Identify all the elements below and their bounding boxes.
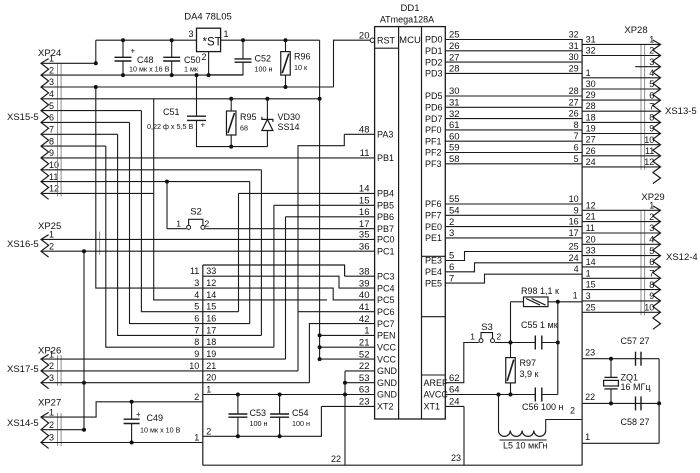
- svg-text:AREF: AREF: [424, 378, 449, 388]
- svg-text:5: 5: [649, 79, 654, 89]
- MCU PA3 wire jog: [344, 133, 374, 135]
- connector XP24/XS15-5 pins 1-12: [41, 59, 49, 200]
- svg-text:PD7: PD7: [425, 114, 443, 124]
- svg-text:10 мк x 16 В: 10 мк x 16 В: [129, 65, 170, 74]
- svg-text:12: 12: [206, 278, 216, 288]
- XP25 pin wires to PC0 PC1: [41, 238, 375, 240]
- svg-text:L5 10 мкГн: L5 10 мкГн: [503, 441, 548, 451]
- wire RESET jog to MCU RST: [334, 40, 375, 87]
- svg-text:8: 8: [194, 337, 199, 347]
- capacitor C54: [278, 393, 282, 397]
- svg-text:30: 30: [586, 79, 596, 89]
- svg-text:29: 29: [569, 63, 579, 73]
- svg-text:XP27: XP27: [38, 398, 61, 409]
- svg-text:+: +: [201, 121, 206, 130]
- svg-text:XP24: XP24: [38, 48, 61, 59]
- svg-text:MCU: MCU: [399, 35, 421, 46]
- svg-text:10 мк x 10 В: 10 мк x 10 В: [140, 426, 181, 435]
- svg-text:PE1: PE1: [425, 233, 442, 243]
- svg-text:+: +: [131, 47, 136, 56]
- svg-text:24: 24: [569, 253, 579, 263]
- svg-text:15: 15: [206, 302, 216, 312]
- svg-text:3: 3: [49, 433, 54, 443]
- svg-text:48: 48: [359, 125, 370, 136]
- svg-text:42: 42: [359, 314, 370, 325]
- svg-text:PC7: PC7: [377, 319, 395, 329]
- MCU right wires to bus edge: [445, 39, 582, 41]
- svg-text:63: 63: [359, 385, 370, 396]
- svg-text:VCC: VCC: [377, 342, 397, 352]
- svg-text:1: 1: [586, 268, 591, 278]
- svg-text:16: 16: [569, 217, 579, 227]
- svg-text:16: 16: [359, 207, 370, 218]
- svg-text:7: 7: [49, 125, 54, 135]
- svg-text:5: 5: [49, 101, 54, 111]
- svg-text:4: 4: [649, 68, 654, 78]
- voltage regulator DA4 78L05: [197, 28, 221, 51]
- connector XP27/XS14-5 pins 1-3: [41, 412, 49, 448]
- svg-text:2: 2: [201, 52, 206, 62]
- svg-text:1: 1: [176, 219, 181, 229]
- svg-text:PC4: PC4: [377, 283, 395, 293]
- svg-text:22: 22: [359, 361, 370, 372]
- svg-text:C50: C50: [184, 55, 201, 65]
- XP26 pin wires: [41, 358, 203, 360]
- connector XP29/XS12-4 pins 1-10: [653, 206, 661, 329]
- inductor L5 10uH: [499, 431, 511, 437]
- MCU DD1 ATmega128A box: [375, 27, 446, 419]
- svg-text:10: 10: [569, 194, 579, 204]
- svg-text:5: 5: [194, 302, 199, 312]
- DA4 pin2 wire: [208, 52, 210, 76]
- svg-text:10: 10: [644, 135, 654, 145]
- svg-text:VCC: VCC: [377, 354, 397, 364]
- capacitor C58 27: [635, 396, 637, 410]
- row 2 wire: [203, 406, 322, 436]
- module box boundary: [202, 265, 204, 465]
- svg-text:23: 23: [451, 453, 461, 463]
- svg-text:AVCC: AVCC: [424, 390, 449, 400]
- svg-text:3: 3: [586, 291, 591, 301]
- wire pin3 drop to row 12: [96, 87, 203, 288]
- wire +5 to PEN VCC VCC: [319, 99, 321, 359]
- row 14 wire: [203, 299, 327, 301]
- svg-text:PB7: PB7: [377, 224, 394, 234]
- connector XP25/XS16-5 pins 1-2: [41, 235, 49, 257]
- svg-text:2: 2: [649, 46, 654, 56]
- svg-text:1: 1: [470, 332, 475, 342]
- svg-text:33: 33: [586, 246, 596, 256]
- row XT2 wire: [321, 405, 374, 407]
- svg-text:9: 9: [649, 124, 654, 134]
- wire crystal row 23: [582, 358, 659, 360]
- diode VD30 SS14 schottky: [265, 97, 269, 101]
- svg-text:25: 25: [569, 242, 579, 252]
- svg-text:PE3: PE3: [425, 256, 442, 266]
- wire XT1 to bottom rail: [445, 405, 464, 407]
- svg-text:PF7: PF7: [425, 211, 442, 221]
- svg-text:R96: R96: [294, 52, 311, 62]
- XP27 pin wires: [41, 402, 203, 417]
- svg-text:1: 1: [224, 29, 229, 39]
- resistor R97 3.9k: [510, 343, 512, 358]
- svg-text:20: 20: [206, 373, 216, 383]
- capacitor C53: [236, 393, 240, 397]
- PC6 row from riser: [298, 311, 375, 313]
- svg-text:4: 4: [49, 89, 54, 99]
- svg-text:PB5: PB5: [377, 201, 394, 211]
- svg-text:3: 3: [49, 77, 54, 87]
- svg-text:PD2: PD2: [425, 57, 443, 67]
- svg-text:VD30: VD30: [278, 112, 301, 122]
- svg-text:17: 17: [359, 219, 370, 230]
- svg-text:18: 18: [586, 112, 596, 122]
- svg-text:36: 36: [359, 241, 370, 252]
- wire pin6 drop to row 16: [130, 122, 203, 323]
- capacitor C57 27: [635, 352, 637, 366]
- svg-text:29: 29: [586, 90, 596, 100]
- row 12 wire jog to PC5: [203, 288, 375, 300]
- svg-text:53: 53: [359, 373, 370, 384]
- svg-text:PC1: PC1: [377, 246, 395, 256]
- XP24 pin wires: [41, 62, 96, 64]
- svg-text:17: 17: [206, 325, 216, 335]
- svg-text:2: 2: [570, 406, 575, 416]
- svg-text:C53: C53: [250, 408, 267, 418]
- svg-text:23: 23: [359, 397, 370, 408]
- wire pin4 drop to row 14: [154, 99, 203, 300]
- svg-text:15: 15: [586, 280, 596, 290]
- svg-text:C56 100 н: C56 100 н: [522, 402, 564, 412]
- svg-text:2: 2: [205, 219, 210, 229]
- svg-text:33: 33: [206, 266, 216, 276]
- vertical R98/C55/C56 right: [557, 302, 559, 395]
- svg-text:3: 3: [194, 278, 199, 288]
- svg-text:2: 2: [49, 241, 54, 251]
- svg-text:1: 1: [649, 35, 654, 45]
- svg-text:RST: RST: [377, 35, 396, 45]
- svg-text:PF0: PF0: [425, 125, 442, 135]
- row 20 wire: [203, 382, 310, 384]
- crystal ZQ1 16MHz: [609, 357, 613, 361]
- svg-text:R95: R95: [240, 112, 257, 122]
- svg-text:PF2: PF2: [425, 148, 442, 158]
- svg-text:22: 22: [331, 454, 341, 464]
- XP29 stub wires: [582, 209, 660, 211]
- svg-text:XS12-4: XS12-4: [666, 252, 698, 263]
- row 21 wire: [203, 370, 298, 372]
- svg-text:1: 1: [49, 407, 54, 417]
- button S2: [165, 180, 169, 184]
- svg-text:16 МГц: 16 МГц: [621, 382, 651, 392]
- svg-text:1: 1: [586, 68, 591, 78]
- svg-text:9: 9: [194, 349, 199, 359]
- svg-text:SS14: SS14: [278, 122, 300, 132]
- row 17 wire: [203, 334, 262, 336]
- svg-text:+: +: [136, 410, 141, 419]
- svg-text:16: 16: [206, 314, 216, 324]
- svg-text:12: 12: [586, 200, 596, 210]
- svg-text:PD0: PD0: [425, 35, 443, 45]
- svg-text:1: 1: [206, 385, 211, 395]
- svg-text:PC3: PC3: [377, 271, 395, 281]
- svg-text:12: 12: [644, 157, 654, 167]
- svg-text:17: 17: [569, 228, 579, 238]
- svg-text:C54: C54: [292, 408, 309, 418]
- svg-text:C57 27: C57 27: [621, 336, 650, 346]
- svg-text:XS17-5: XS17-5: [7, 364, 39, 375]
- svg-text:25: 25: [586, 302, 596, 312]
- wire L5 right to edge row 2: [546, 420, 582, 431]
- svg-text:21: 21: [359, 337, 370, 348]
- svg-text:100 н: 100 н: [255, 65, 273, 74]
- svg-text:4: 4: [194, 290, 199, 300]
- riser row20 to PC7: [309, 324, 374, 383]
- svg-text:11: 11: [586, 223, 595, 233]
- svg-text:PB6: PB6: [377, 212, 394, 222]
- row 16 wire: [203, 323, 250, 325]
- svg-text:XT2: XT2: [377, 402, 394, 412]
- svg-text:11: 11: [360, 148, 370, 159]
- svg-text:15: 15: [359, 196, 370, 207]
- svg-text:38: 38: [359, 266, 370, 277]
- resistor R98 1.1k: [524, 297, 549, 307]
- svg-text:C55 1 мк: C55 1 мк: [521, 320, 558, 330]
- svg-text:27: 27: [569, 97, 579, 107]
- svg-text:32: 32: [586, 46, 596, 56]
- svg-text:PB1: PB1: [377, 153, 394, 163]
- row 19 wire: [203, 358, 286, 360]
- svg-text:2: 2: [49, 65, 54, 75]
- row 15 wire: [203, 311, 239, 313]
- wire +5V drop to pin4 row: [319, 40, 321, 99]
- svg-text:14: 14: [586, 257, 596, 267]
- svg-text:PC0: PC0: [377, 235, 395, 245]
- connector XP26/XS17-5 pins 1-3: [41, 354, 49, 388]
- svg-text:10: 10: [189, 361, 199, 371]
- svg-text:1: 1: [573, 291, 578, 301]
- svg-text:XP26: XP26: [38, 346, 61, 357]
- svg-text:S3: S3: [481, 322, 493, 333]
- svg-text:R97: R97: [520, 358, 537, 368]
- svg-text:4: 4: [649, 235, 654, 245]
- svg-text:6: 6: [574, 143, 579, 153]
- svg-text:PE4: PE4: [425, 267, 442, 277]
- svg-text:100 н: 100 н: [250, 419, 268, 428]
- svg-text:DD1: DD1: [400, 3, 419, 14]
- svg-text:35: 35: [359, 230, 370, 241]
- svg-text:1: 1: [194, 433, 199, 443]
- svg-text:PF1: PF1: [425, 136, 442, 146]
- capacitor C52: [241, 38, 245, 42]
- button S3: [479, 339, 483, 343]
- svg-text:18: 18: [206, 337, 216, 347]
- vertical R98/C55 left: [510, 302, 512, 343]
- svg-text:C52: C52: [255, 54, 272, 64]
- svg-text:20: 20: [586, 234, 596, 244]
- svg-text:7: 7: [194, 325, 199, 335]
- svg-text:XS15-5: XS15-5: [7, 112, 39, 123]
- GND strap pins 22 53 63: [345, 370, 375, 372]
- svg-text:PC6: PC6: [377, 307, 395, 317]
- svg-text:31: 31: [586, 34, 596, 44]
- svg-text:9: 9: [649, 291, 654, 301]
- svg-text:8: 8: [649, 280, 654, 290]
- svg-text:*ST: *ST: [203, 37, 222, 49]
- svg-text:22: 22: [585, 392, 595, 402]
- capacitor C48: [121, 38, 125, 42]
- svg-text:7: 7: [649, 101, 654, 111]
- svg-text:14: 14: [359, 184, 370, 195]
- svg-text:14: 14: [206, 290, 216, 300]
- svg-text:PD5: PD5: [425, 91, 443, 101]
- svg-text:2: 2: [49, 361, 54, 371]
- svg-text:68: 68: [240, 124, 248, 133]
- svg-text:PA3: PA3: [377, 130, 393, 140]
- svg-text:R98 1,1 к: R98 1,1 к: [521, 286, 559, 296]
- svg-text:XP25: XP25: [38, 221, 61, 232]
- svg-text:100 н: 100 н: [292, 419, 310, 428]
- svg-text:6: 6: [649, 257, 654, 267]
- svg-text:19: 19: [206, 349, 216, 359]
- svg-text:31: 31: [569, 41, 579, 51]
- svg-text:32: 32: [569, 30, 579, 40]
- wire S3 left to AREF: [445, 343, 479, 383]
- svg-text:8: 8: [49, 136, 54, 146]
- svg-text:2: 2: [649, 212, 654, 222]
- svg-text:XP28: XP28: [624, 25, 647, 36]
- svg-text:PEN: PEN: [377, 331, 396, 341]
- svg-text:2: 2: [49, 420, 54, 430]
- svg-text:1: 1: [585, 432, 590, 442]
- wire +BAT riser XP24 pin1 to rail: [95, 40, 97, 63]
- svg-text:GND: GND: [377, 378, 398, 388]
- svg-text:PC5: PC5: [377, 295, 395, 305]
- svg-text:6: 6: [49, 113, 54, 123]
- row 1 wire to GND63: [203, 394, 375, 396]
- svg-text:30: 30: [569, 52, 579, 62]
- svg-text:PD6: PD6: [425, 103, 443, 113]
- AVCC row wire with C56: [445, 394, 535, 396]
- svg-text:11: 11: [645, 146, 654, 156]
- svg-text:7: 7: [649, 269, 654, 279]
- svg-text:XT1: XT1: [424, 402, 441, 412]
- wire +V input rail: [96, 39, 197, 41]
- svg-text:C49: C49: [147, 413, 164, 423]
- row 33 wire jog to PC4: [203, 276, 375, 288]
- wire pin8 drop to row 18: [106, 146, 203, 347]
- wire pin7 drop to row 17: [118, 134, 203, 335]
- svg-text:1 мк: 1 мк: [184, 65, 199, 74]
- svg-text:10 к: 10 к: [294, 63, 308, 72]
- svg-text:8: 8: [649, 113, 654, 123]
- wire XS16/XS17/XS14 common vertical: [83, 251, 85, 430]
- svg-text:3: 3: [49, 373, 54, 383]
- svg-text:3,9 к: 3,9 к: [520, 369, 539, 379]
- PE3 PE4 PE5 jog wires: [445, 252, 582, 261]
- wire crystal row 22: [582, 402, 659, 404]
- svg-text:40: 40: [359, 290, 370, 301]
- svg-text:XS14-5: XS14-5: [7, 418, 39, 429]
- svg-text:4: 4: [574, 264, 579, 274]
- svg-text:3: 3: [188, 29, 193, 39]
- stair verticals rows to MCU side: [238, 193, 240, 311]
- svg-text:26: 26: [569, 109, 579, 119]
- svg-text:9: 9: [574, 205, 579, 215]
- svg-text:ZQ1: ZQ1: [621, 373, 639, 383]
- svg-text:PB4: PB4: [377, 189, 394, 199]
- wire pin5 drop to row 15: [141, 111, 202, 312]
- svg-text:41: 41: [359, 302, 370, 313]
- svg-text:1: 1: [364, 326, 369, 337]
- svg-text:21: 21: [206, 361, 216, 371]
- svg-text:28: 28: [569, 86, 579, 96]
- svg-text:26: 26: [586, 146, 596, 156]
- svg-text:3: 3: [649, 57, 654, 67]
- svg-text:S2: S2: [190, 207, 202, 218]
- svg-text:8: 8: [574, 120, 579, 130]
- row 18 wire: [203, 346, 274, 348]
- wire +5V rail from DA4 output: [221, 39, 320, 41]
- svg-text:PE0: PE0: [425, 222, 442, 232]
- resistor R95 68: [229, 97, 233, 101]
- svg-text:20: 20: [359, 30, 370, 41]
- svg-text:19: 19: [586, 124, 596, 134]
- svg-text:11: 11: [190, 266, 199, 276]
- svg-text:PF6: PF6: [425, 199, 442, 209]
- svg-text:PE5: PE5: [425, 278, 442, 288]
- svg-text:PD3: PD3: [425, 69, 443, 79]
- svg-text:39: 39: [359, 278, 370, 289]
- svg-text:23: 23: [585, 348, 595, 358]
- svg-text:6: 6: [194, 314, 199, 324]
- crystal right return wire: [658, 359, 660, 444]
- svg-text:6: 6: [649, 90, 654, 100]
- svg-text:11: 11: [49, 172, 58, 182]
- svg-text:XS13-5: XS13-5: [665, 106, 697, 117]
- svg-text:10: 10: [644, 303, 654, 313]
- svg-text:PD1: PD1: [425, 46, 443, 56]
- svg-text:24: 24: [586, 157, 596, 167]
- svg-text:XS16-5: XS16-5: [7, 239, 39, 250]
- svg-text:2: 2: [497, 332, 502, 342]
- svg-text:3: 3: [649, 223, 654, 233]
- svg-text:5: 5: [574, 154, 579, 164]
- capacitor C50: [170, 38, 174, 42]
- svg-text:PF3: PF3: [425, 159, 442, 169]
- XP28 stub wires: [582, 43, 660, 45]
- wire S3 right: [495, 342, 511, 344]
- svg-text:DA4 78L05: DA4 78L05: [184, 12, 232, 23]
- svg-text:GND: GND: [377, 366, 398, 376]
- svg-text:C48: C48: [137, 55, 154, 65]
- capacitor C49: [130, 400, 134, 404]
- svg-text:28: 28: [586, 101, 596, 111]
- svg-text:GND: GND: [377, 390, 398, 400]
- connector XP28/XS13-5 pins 1-12: [653, 40, 661, 184]
- resistor R96 10k: [284, 38, 288, 42]
- wire S2 to PB7: [205, 228, 374, 230]
- svg-text:52: 52: [359, 349, 370, 360]
- svg-text:27: 27: [586, 135, 596, 145]
- svg-text:C51: C51: [163, 107, 180, 117]
- svg-text:C58 27: C58 27: [621, 417, 650, 427]
- svg-text:XP29: XP29: [641, 192, 664, 203]
- svg-text:9: 9: [49, 148, 54, 158]
- svg-text:21: 21: [586, 212, 596, 222]
- svg-text:7: 7: [574, 131, 579, 141]
- supercap C51 0.22F: [196, 75, 198, 116]
